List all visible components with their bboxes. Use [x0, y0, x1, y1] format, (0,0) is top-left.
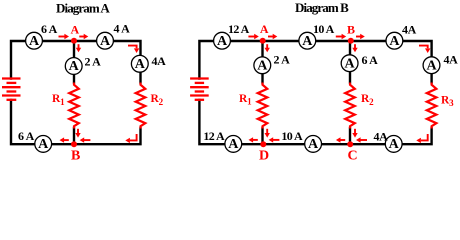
svg-text:10 A: 10 A: [281, 129, 303, 143]
svg-text:2: 2: [159, 97, 164, 107]
svg-text:3: 3: [449, 98, 454, 108]
svg-text:Diagram B: Diagram B: [295, 0, 349, 15]
svg-text:A: A: [38, 137, 49, 152]
svg-text:A: A: [228, 137, 239, 152]
svg-text:B: B: [71, 149, 80, 162]
svg-text:A: A: [308, 137, 319, 152]
svg-text:4A: 4A: [374, 129, 389, 143]
svg-text:2 A: 2 A: [274, 52, 291, 66]
svg-text:A: A: [71, 22, 80, 36]
svg-text:A: A: [260, 22, 269, 36]
svg-text:A: A: [389, 137, 400, 152]
svg-text:C: C: [348, 149, 358, 162]
svg-text:4A: 4A: [152, 54, 167, 68]
svg-text:6 A: 6 A: [41, 22, 58, 36]
svg-text:A: A: [345, 56, 356, 71]
svg-text:Diagram A: Diagram A: [56, 1, 110, 16]
svg-text:A: A: [389, 34, 400, 49]
svg-text:A: A: [29, 34, 40, 49]
svg-text:2 A: 2 A: [85, 54, 102, 68]
svg-text:2: 2: [369, 97, 374, 107]
svg-text:A: A: [217, 34, 228, 49]
svg-text:12 A: 12 A: [203, 129, 225, 143]
svg-text:A: A: [426, 58, 437, 73]
svg-text:4 A: 4 A: [114, 22, 131, 36]
svg-text:6 A: 6 A: [18, 129, 35, 143]
svg-text:10 A: 10 A: [313, 22, 335, 36]
svg-text:A: A: [100, 34, 111, 49]
svg-text:1: 1: [247, 96, 252, 106]
svg-text:4A: 4A: [402, 22, 417, 36]
svg-text:1: 1: [60, 97, 65, 107]
svg-text:6 A: 6 A: [362, 53, 379, 67]
svg-text:12 A: 12 A: [228, 22, 250, 36]
svg-text:A: A: [257, 59, 268, 74]
svg-text:B: B: [347, 22, 355, 36]
svg-text:D: D: [259, 149, 269, 162]
svg-text:A: A: [69, 59, 80, 74]
svg-text:A: A: [302, 34, 313, 49]
svg-text:4A: 4A: [444, 52, 459, 66]
svg-text:A: A: [135, 57, 146, 72]
